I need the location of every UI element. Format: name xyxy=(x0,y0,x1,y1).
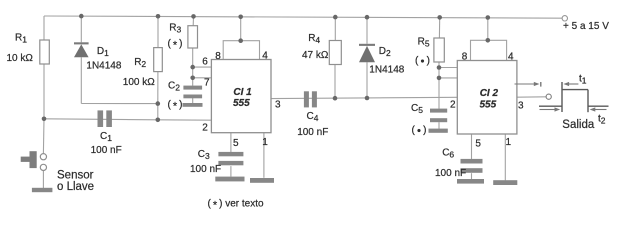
tick mark waveform start xyxy=(540,82,542,87)
svg-text:4: 4 xyxy=(262,51,268,62)
svg-text:R1: R1 xyxy=(15,33,27,45)
wire R2 top lead xyxy=(157,16,159,47)
svg-text:100 kΩ: 100 kΩ xyxy=(123,77,155,88)
svg-text:R4: R4 xyxy=(308,33,320,45)
svg-text:D2: D2 xyxy=(379,46,391,58)
node CI1 pin 6 junction xyxy=(190,65,195,70)
wire CI1 Vcc drop from rail xyxy=(240,17,242,41)
node D2 top on rail xyxy=(365,15,370,20)
wire R3 bottom lead through pin6/7 junctions to C2 xyxy=(192,48,194,86)
wire CI2 pin 5 to C6 xyxy=(471,134,473,159)
output waveform Salida xyxy=(539,82,609,112)
node D2 bottom xyxy=(365,96,370,101)
wire CI2 pin 1 to ground xyxy=(504,134,506,180)
arrow marker t2 lower right xyxy=(590,107,607,111)
wire D1 top lead xyxy=(80,16,82,42)
wire C6 to ground xyxy=(471,173,473,179)
resistor R4 xyxy=(329,41,341,65)
ground CI2 pin 1 xyxy=(493,180,517,185)
node B trigger xyxy=(156,118,161,123)
svg-text:C4: C4 xyxy=(307,111,319,123)
svg-text:100 nF: 100 nF xyxy=(91,145,122,156)
node A D1/R2 xyxy=(156,101,161,106)
svg-text:( ● ): ( ● ) xyxy=(415,56,430,67)
svg-text:o Llave: o Llave xyxy=(57,181,94,193)
node R4 top on rail xyxy=(333,15,338,20)
arrow marker t1 top xyxy=(563,82,578,86)
wire node B to CI1 pin 2 xyxy=(158,119,212,121)
wire CI1 pins 8-4 bracket xyxy=(223,41,259,60)
ground below switch xyxy=(32,188,53,192)
svg-text:R3: R3 xyxy=(169,23,181,35)
svg-text:3: 3 xyxy=(518,101,524,112)
resistor R1 xyxy=(40,40,50,64)
svg-text:10 kΩ: 10 kΩ xyxy=(7,53,34,64)
svg-text:1: 1 xyxy=(262,137,268,148)
svg-text:100 nF: 100 nF xyxy=(435,168,466,179)
svg-text:100 nF: 100 nF xyxy=(190,164,221,175)
IC CI2 555 box xyxy=(457,61,517,135)
wire CI1 pin 1 to ground xyxy=(263,133,265,178)
svg-text:555: 555 xyxy=(480,100,497,111)
node CI2 bracket top xyxy=(486,38,491,43)
arrow marker into waveform start xyxy=(515,82,540,86)
wire R4 bottom lead xyxy=(334,65,336,99)
node CI2 pin 7 junction xyxy=(437,76,442,81)
wire C5 to ground xyxy=(438,122,440,129)
op-amp U1 box: IC CI1 555 xyxy=(211,60,271,133)
svg-text:Salida: Salida xyxy=(562,119,595,131)
wire R4 top lead xyxy=(334,17,336,40)
svg-text:7: 7 xyxy=(204,78,210,89)
ground CI1 pin 1 xyxy=(250,178,274,183)
wire D1 bottom lead xyxy=(80,57,82,103)
wire D1 anode to node A xyxy=(81,103,158,105)
svg-text:C3: C3 xyxy=(198,149,210,161)
svg-text:5: 5 xyxy=(233,138,239,149)
svg-text:5: 5 xyxy=(475,139,481,150)
svg-text:47 kΩ: 47 kΩ xyxy=(302,50,329,61)
svg-text:555: 555 xyxy=(233,98,250,109)
wire D2 top lead xyxy=(366,17,368,44)
wire node A to node B vertical xyxy=(157,104,159,120)
node R5 top on rail xyxy=(437,15,442,20)
capacitor C4 xyxy=(304,91,317,107)
wire switch to ground xyxy=(42,171,44,189)
svg-text:6: 6 xyxy=(202,57,208,68)
wire CI1 pin 6 xyxy=(193,66,212,68)
svg-text:4: 4 xyxy=(508,51,514,62)
svg-text:t2: t2 xyxy=(598,114,606,126)
wire C1 horizontal (trigger) xyxy=(44,119,158,120)
node CI1 pin 7 junction xyxy=(190,76,195,81)
ground below C5 xyxy=(429,129,448,133)
wire R2 bottom lead xyxy=(157,72,159,104)
svg-text:CI 2: CI 2 xyxy=(480,88,499,99)
capacitor C5 xyxy=(430,109,447,123)
resistor R5 xyxy=(434,38,444,62)
terminal +V supply xyxy=(562,16,567,21)
svg-text:D1: D1 xyxy=(97,46,109,58)
capacitor C2 xyxy=(183,86,202,99)
svg-text:+ 5 a 15 V: + 5 a 15 V xyxy=(563,21,609,32)
wire R5 bottom lead through pin6/7 junctions to C5 xyxy=(438,62,440,109)
svg-text:R5: R5 xyxy=(418,37,430,49)
capacitor C1 xyxy=(98,110,112,127)
svg-text:1N4148: 1N4148 xyxy=(86,61,121,72)
wire D2 bottom lead xyxy=(366,62,368,98)
svg-text:C1: C1 xyxy=(100,131,112,143)
wire C2 to ground xyxy=(192,98,194,104)
wire top power rail xyxy=(44,16,564,18)
svg-text:CI 1: CI 1 xyxy=(233,87,252,98)
diode D1 xyxy=(74,42,89,57)
svg-text:1: 1 xyxy=(506,137,512,148)
wire R1 bottom lead to C1 node xyxy=(43,64,45,119)
node CI2 pin 6 junction xyxy=(437,65,442,70)
node R2 top on rail xyxy=(156,14,161,19)
svg-text:t1: t1 xyxy=(579,74,587,86)
svg-text:1N4148: 1N4148 xyxy=(369,65,404,76)
wire CI2 pin 6 xyxy=(440,67,457,69)
node CI2 Vcc on rail xyxy=(486,15,491,20)
diode D2 xyxy=(359,44,375,62)
wire CI2 pin 7 xyxy=(440,77,457,79)
resistor R2 xyxy=(154,48,163,72)
wire CI2 pins 8-4 bracket xyxy=(471,40,507,60)
svg-text:8: 8 xyxy=(215,51,221,62)
ground below C3 xyxy=(215,177,244,182)
wire C1 node down to switch xyxy=(42,119,45,154)
resistor R3 xyxy=(188,26,198,48)
svg-text:3: 3 xyxy=(275,100,281,111)
node D1 top on rail xyxy=(79,14,84,19)
node R4 bottom xyxy=(333,96,338,101)
svg-text:C6: C6 xyxy=(442,148,454,160)
svg-text:( ● ): ( ● ) xyxy=(412,125,427,136)
ground below C6 xyxy=(457,179,484,184)
wire CI1 pin 5 to C3 xyxy=(230,133,232,152)
wire CI1 pin 3 output to CI2 pin 2 xyxy=(271,97,457,98)
arrow marker t1 lower left xyxy=(540,107,561,111)
svg-text:R2: R2 xyxy=(134,57,146,69)
svg-text:8: 8 xyxy=(462,52,468,63)
wire left rail R1 top lead xyxy=(43,16,45,40)
capacitor C6 xyxy=(461,159,483,173)
terminal output pin 3 xyxy=(546,94,551,99)
svg-text:2: 2 xyxy=(202,123,208,134)
svg-text:C5: C5 xyxy=(411,103,423,115)
svg-text:100 nF: 100 nF xyxy=(297,127,328,138)
node R3 top on rail xyxy=(191,14,196,19)
ground below C2 xyxy=(183,103,203,107)
svg-text:2: 2 xyxy=(450,99,456,110)
wire C3 to ground xyxy=(230,166,232,177)
wire CI1 pin 7 xyxy=(193,77,212,79)
wire CI2 Vcc drop from rail xyxy=(487,18,489,41)
wire R5 top lead xyxy=(438,17,440,38)
switch Sensor o Llave xyxy=(21,151,47,170)
svg-text:C2: C2 xyxy=(168,81,180,93)
node CI1 bracket top xyxy=(238,38,243,43)
wire R3 top lead xyxy=(192,16,194,25)
node left rail / C1 xyxy=(42,117,47,122)
node CI1 Vcc on rail xyxy=(238,14,243,19)
capacitor C3 xyxy=(218,152,243,165)
wire CI2 pin 3 output xyxy=(517,96,546,98)
